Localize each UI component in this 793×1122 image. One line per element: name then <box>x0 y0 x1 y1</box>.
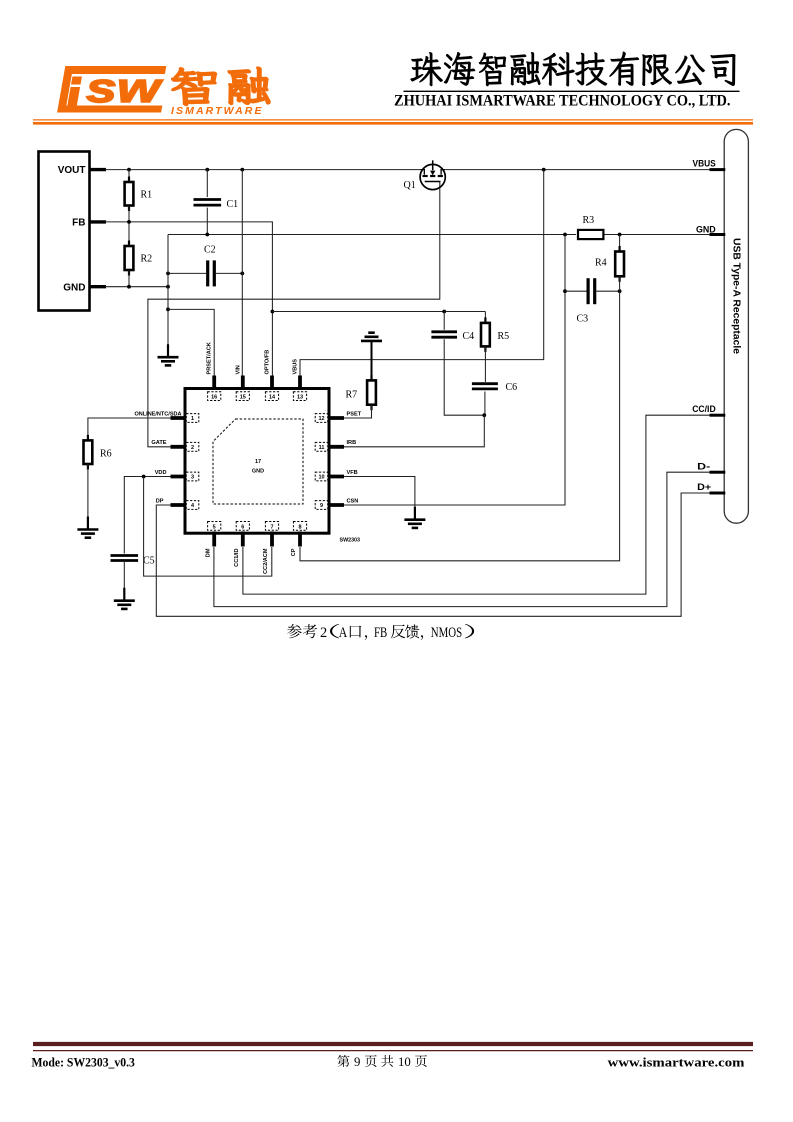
junction C4 top <box>442 310 446 314</box>
pin 7 stub <box>270 532 274 547</box>
capacitor C6 <box>472 382 498 385</box>
svg-text:10: 10 <box>398 1055 411 1069</box>
svg-text:USB Type-A Receptacle: USB Type-A Receptacle <box>731 238 743 354</box>
svg-text:CC1/ID: CC1/ID <box>234 549 240 567</box>
wire GND connector to bus <box>105 286 168 288</box>
svg-text:11: 11 <box>319 445 325 451</box>
svg-text:1: 1 <box>191 416 194 422</box>
svg-text:VBUS: VBUS <box>293 359 299 375</box>
svg-text:SW2303: SW2303 <box>340 538 361 544</box>
svg-text:w: w <box>117 64 163 111</box>
junction GNDrail/R3right <box>618 233 622 237</box>
svg-text:R4: R4 <box>595 258 607 269</box>
svg-text:GND: GND <box>63 282 85 293</box>
resistor R1 <box>128 170 130 182</box>
svg-text:VDD: VDD <box>155 470 167 476</box>
svg-text:PRSET/ACK: PRSET/ACK <box>207 342 213 374</box>
junction bus/pin16-wire <box>166 308 170 312</box>
svg-text:17: 17 <box>255 459 261 465</box>
wire CSN branch x565 <box>344 235 565 506</box>
footer rule thick <box>33 1042 753 1046</box>
wire VOUT rail <box>105 169 420 171</box>
svg-text:7: 7 <box>270 524 273 530</box>
junction C2/bus <box>166 272 170 276</box>
USB pin D+ <box>710 492 726 495</box>
resistor R6 <box>87 435 89 441</box>
svg-text:R5: R5 <box>498 331 510 342</box>
svg-text:10: 10 <box>318 475 324 481</box>
pin 9 stub <box>327 503 344 507</box>
svg-text:R2: R2 <box>141 254 153 265</box>
wire GND rail to USB <box>168 234 576 236</box>
svg-text:GND: GND <box>252 469 264 475</box>
pin 3 stub <box>171 475 188 479</box>
svg-text:14: 14 <box>269 395 276 401</box>
capacitor C5 <box>111 554 139 557</box>
junction VDD branch <box>142 475 146 479</box>
svg-text:3: 3 <box>191 475 194 481</box>
junction GNDrail/R3left <box>563 233 567 237</box>
pin 6 stub <box>241 532 245 547</box>
pin 10 stub <box>327 475 344 479</box>
svg-text:R1: R1 <box>141 190 153 201</box>
svg-text:VBUS: VBUS <box>693 159 717 170</box>
wire VDD to CC2/ACM <box>144 477 272 577</box>
svg-text:2: 2 <box>191 445 194 451</box>
pin 15 stub <box>241 376 245 391</box>
svg-text:6: 6 <box>241 524 244 530</box>
resistor R5 <box>484 312 486 323</box>
svg-text:s: s <box>86 64 117 111</box>
svg-text:9: 9 <box>354 1055 360 1069</box>
svg-text:16: 16 <box>211 395 217 401</box>
header rule thin <box>33 119 753 121</box>
svg-text:CP: CP <box>291 548 297 556</box>
pin 2 stub <box>171 445 188 449</box>
svg-text:R7: R7 <box>346 390 358 401</box>
junction VOUT/VIN <box>240 168 244 172</box>
pin 14 stub <box>270 376 274 391</box>
wire OPTO line y311 <box>272 311 485 313</box>
footer page chinese <box>337 1055 427 1067</box>
svg-text:PSET: PSET <box>347 411 362 417</box>
svg-text:5: 5 <box>213 524 216 530</box>
pin 8 stub <box>298 532 302 547</box>
svg-text:D-: D- <box>697 461 710 472</box>
junction C3 right / R4 <box>618 289 622 293</box>
svg-text:R3: R3 <box>583 215 595 226</box>
svg-text:OPTO/FB: OPTO/FB <box>265 350 271 375</box>
wire FB net <box>105 222 272 376</box>
svg-text:ZHUHAI ISMARTWARE TECHNOLOGY C: ZHUHAI ISMARTWARE TECHNOLOGY CO., LTD. <box>394 93 731 110</box>
capacitor C2 <box>168 272 206 274</box>
wire PRSET/ACK to bus <box>168 309 214 376</box>
junction GND/bus <box>166 285 170 289</box>
svg-text:CC/ID: CC/ID <box>692 404 716 415</box>
junction VOUT/C1 <box>205 168 209 172</box>
USB pin VBUS <box>710 168 726 171</box>
junction GNDrail/C1 <box>205 233 209 237</box>
footer rule thin <box>33 1050 753 1052</box>
header rule thick <box>33 122 753 125</box>
svg-text:C4: C4 <box>463 331 475 342</box>
junction C3 left <box>563 289 567 293</box>
pin 5 stub <box>212 532 216 547</box>
resistor R4 <box>619 235 621 252</box>
logo chinese 智 <box>172 68 216 105</box>
wire ONLINE/NTC/SDA to R6 <box>88 418 171 440</box>
svg-text:CC2/ACM: CC2/ACM <box>263 548 269 574</box>
ground symbol R6 <box>87 517 89 530</box>
wire Q1 gate to GATE pin <box>148 182 440 447</box>
ground symbol C5 <box>123 588 125 601</box>
USB Type-A receptacle <box>724 129 748 523</box>
pin 16 stub <box>212 376 216 391</box>
pin 1 stub <box>171 416 188 420</box>
output connector J1 <box>39 152 90 311</box>
svg-text:C1: C1 <box>227 199 239 210</box>
ground symbol bus <box>167 344 169 357</box>
wire DM net <box>214 472 711 606</box>
svg-text:C5: C5 <box>143 556 155 567</box>
pin 4 stub <box>171 503 188 507</box>
junction FB/PSET-line <box>271 310 275 314</box>
USB pin D- <box>710 471 726 474</box>
svg-text:VFB: VFB <box>347 470 358 476</box>
svg-text:ISMARTWARE: ISMARTWARE <box>171 105 264 117</box>
transistor Q1 <box>420 164 445 189</box>
svg-text:ONLINE/NTC/SDA: ONLINE/NTC/SDA <box>135 411 182 417</box>
svg-text:GND: GND <box>696 224 716 235</box>
svg-text:12: 12 <box>318 416 324 422</box>
svg-text:DP: DP <box>156 498 164 504</box>
svg-text:R6: R6 <box>100 449 112 460</box>
wire ground bus x168 <box>167 235 169 357</box>
wire VIN vertical <box>241 170 243 376</box>
svg-text:C2: C2 <box>204 245 216 256</box>
svg-text:C6: C6 <box>506 382 518 393</box>
svg-text:DM: DM <box>205 548 211 557</box>
junction FB/R1R2 <box>127 220 131 224</box>
wire VDD net <box>124 477 171 554</box>
title underline <box>404 90 740 92</box>
resistor R3 <box>578 230 603 239</box>
resistor R2 <box>128 222 130 246</box>
junction GND/R2 <box>127 285 131 289</box>
svg-text:9: 9 <box>320 503 323 509</box>
junction C4/C6/IRB <box>482 413 486 417</box>
pin 12 stub <box>327 416 344 420</box>
svg-text:Mode: SW2303_v0.3: Mode: SW2303_v0.3 <box>32 1055 135 1069</box>
company title chinese <box>411 52 736 86</box>
junction C2/VIN <box>240 272 244 276</box>
svg-text:D+: D+ <box>697 482 711 493</box>
svg-text:15: 15 <box>240 395 246 401</box>
svg-text:VIN: VIN <box>235 365 241 374</box>
svg-text:VOUT: VOUT <box>58 165 86 176</box>
capacitor C1 <box>206 170 208 197</box>
svg-text:13: 13 <box>297 395 303 401</box>
USB pin CC/ID <box>710 414 726 417</box>
svg-text:CSN: CSN <box>347 498 359 504</box>
ground symbol VFB <box>414 507 416 520</box>
svg-text:NMOS: NMOS <box>431 625 462 641</box>
company logo frame <box>57 64 169 113</box>
svg-text:8: 8 <box>298 524 301 530</box>
caption chinese <box>287 624 474 640</box>
svg-text:FB: FB <box>72 218 85 229</box>
svg-text:www.ismartware.com: www.ismartware.com <box>608 1054 745 1069</box>
pin 11 stub <box>327 445 344 449</box>
svg-text:FB: FB <box>374 625 387 641</box>
svg-text:A: A <box>339 625 348 641</box>
junction VOUT/R1 <box>127 168 131 172</box>
capacitor C4 <box>443 312 445 330</box>
junction VOUT/VBUS-branch <box>542 168 546 172</box>
svg-text:2: 2 <box>320 625 327 641</box>
wire IRB <box>344 415 484 447</box>
wire VBUS pin13 branch <box>300 170 544 376</box>
IC thermal pad 17 GND <box>213 419 303 504</box>
logo chinese 融 <box>228 68 269 105</box>
wire CP branch x619 <box>300 291 620 561</box>
svg-text:GATE: GATE <box>151 440 166 446</box>
resistor R7 <box>361 340 382 343</box>
svg-text:C3: C3 <box>577 314 589 325</box>
pin 13 stub <box>298 376 302 391</box>
wire VFB to ground <box>344 477 415 519</box>
J1 pin stub VOUT <box>90 168 107 171</box>
wire CC1/ID net <box>243 415 711 594</box>
USB pin GND <box>710 233 726 236</box>
capacitor C3 <box>565 290 587 292</box>
IC U1 SW2303 <box>185 389 329 534</box>
J1 pin stub FB <box>90 220 107 223</box>
J1 pin stub GND <box>90 285 107 288</box>
wire DP net <box>156 493 710 616</box>
svg-text:IRB: IRB <box>347 440 357 446</box>
svg-text:Q1: Q1 <box>404 180 416 191</box>
